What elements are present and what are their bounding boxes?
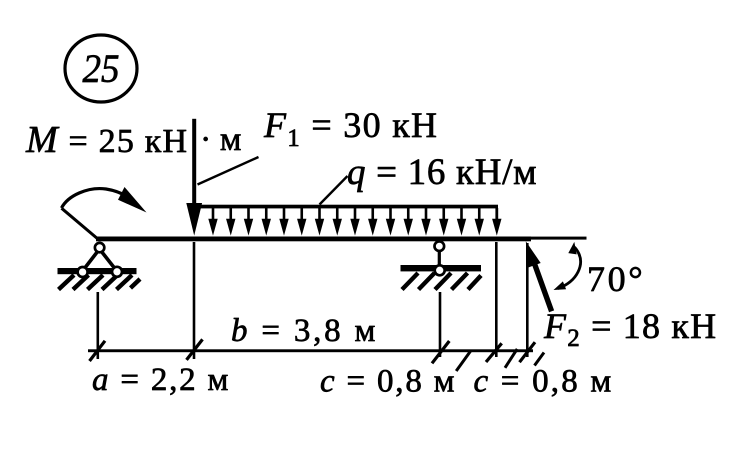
angle reference line xyxy=(528,237,587,240)
extra tick c1 xyxy=(456,351,470,371)
extension line left support xyxy=(97,292,100,359)
extra tick c3 xyxy=(535,353,545,366)
label q = 16 kN/m xyxy=(347,152,537,193)
left support hatching xyxy=(59,275,141,290)
svg-text:c = 0,8 м: c = 0,8 м xyxy=(474,364,614,400)
extension line q end xyxy=(495,242,498,357)
problem number circle 25 xyxy=(65,35,137,102)
leader line to q load xyxy=(320,176,348,205)
svg-text:· м: · м xyxy=(200,121,241,158)
left pinned support xyxy=(58,243,141,290)
svg-text:a = 2,2 м: a = 2,2 м xyxy=(92,362,230,398)
70 degree angle arc xyxy=(554,242,581,290)
svg-text:q = 16 кН/м: q = 16 кН/м xyxy=(347,152,537,193)
beam xyxy=(96,237,531,242)
extra tick c2 xyxy=(505,349,517,368)
right roller support xyxy=(401,241,482,289)
dimension tick at F1 xyxy=(187,339,203,360)
extension line roller support xyxy=(439,292,442,357)
distributed load q xyxy=(194,205,502,236)
svg-text:M = 25 кН: M = 25 кН xyxy=(25,119,188,161)
dimension tick at beam end xyxy=(520,342,536,362)
dimension line xyxy=(88,349,533,352)
leader line to F1 arrow xyxy=(198,157,259,185)
svg-text:b = 3,8 м: b = 3,8 м xyxy=(231,313,378,349)
right support hatching xyxy=(402,273,481,290)
dimension tick at roller xyxy=(432,341,449,363)
label M = 25 kN*m xyxy=(25,119,241,161)
extension line F1 point xyxy=(193,242,196,359)
moment M curved arrow xyxy=(62,187,147,240)
extension line beam end xyxy=(526,243,529,357)
force F2 arrow xyxy=(526,241,552,311)
label F1 = 30 kN xyxy=(263,105,438,152)
dimension tick at left support xyxy=(90,341,106,361)
svg-text:70°: 70° xyxy=(587,259,645,299)
svg-text:c = 0,8 м: c = 0,8 м xyxy=(320,364,456,400)
force F1 arrow xyxy=(186,119,202,236)
svg-text:25: 25 xyxy=(83,46,120,91)
dimension tick at q end xyxy=(486,343,502,362)
